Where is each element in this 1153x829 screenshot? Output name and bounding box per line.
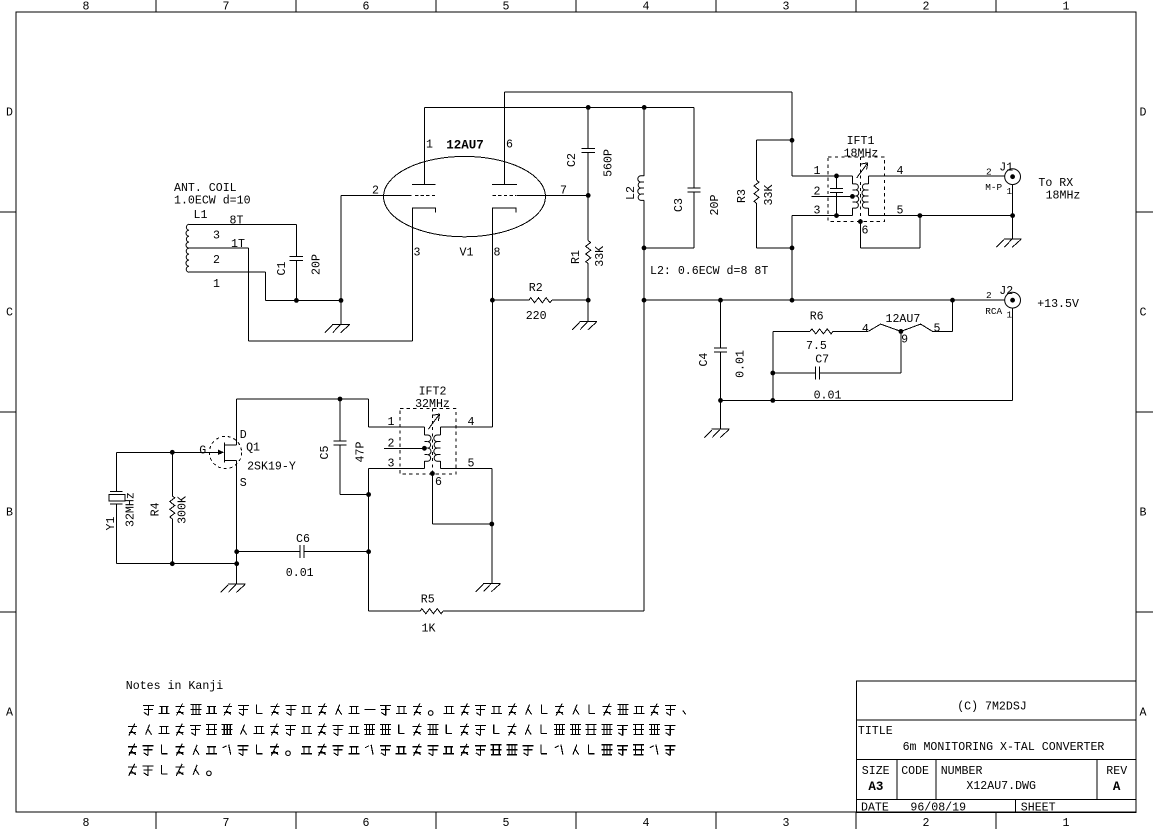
ground below IFT2 xyxy=(476,583,501,591)
label tube pin 1 xyxy=(426,139,433,152)
label 0.01 C7 xyxy=(814,390,842,403)
label M-P xyxy=(985,182,1002,193)
svg-text:C4: C4 xyxy=(698,353,711,367)
tube cathode 1 xyxy=(412,208,435,341)
wire IFT1 pin 1 feed xyxy=(792,140,852,176)
capacitor C3 xyxy=(687,107,700,248)
svg-text:32MHz: 32MHz xyxy=(125,492,138,527)
svg-text:R6: R6 xyxy=(810,311,824,324)
node pin5 pin6 junction xyxy=(918,213,923,218)
svg-text:2: 2 xyxy=(213,254,220,267)
label L1 pin 2 xyxy=(213,254,220,267)
svg-text:TITLE: TITLE xyxy=(858,725,893,738)
svg-text:C2: C2 xyxy=(566,153,579,167)
label 300K xyxy=(177,496,190,524)
IFT2 shield box xyxy=(400,409,456,475)
label IFT2 pin 6 xyxy=(435,476,442,489)
svg-text:DATE: DATE xyxy=(861,802,889,815)
svg-text:2: 2 xyxy=(814,185,821,198)
svg-text:5: 5 xyxy=(503,817,510,829)
label 220 xyxy=(526,310,547,323)
resistor R6 xyxy=(773,329,868,334)
node C7 left xyxy=(770,371,775,376)
svg-text:C6: C6 xyxy=(296,533,310,546)
wire L1 tap to cathode 1 xyxy=(189,248,412,341)
capacitor C5 xyxy=(333,399,368,495)
wire IFT1 pin 2 stub xyxy=(812,195,853,197)
svg-text:6: 6 xyxy=(435,476,442,489)
svg-text:6: 6 xyxy=(363,817,370,829)
resistor R2 xyxy=(492,298,588,303)
tube grid 1 xyxy=(341,194,437,196)
label 1T xyxy=(231,238,245,251)
svg-text:4: 4 xyxy=(862,323,869,336)
node R6 bottom xyxy=(770,398,775,403)
svg-text:L1: L1 xyxy=(194,209,208,222)
label IFT1 pin 5 xyxy=(897,205,904,218)
svg-text:7.5: 7.5 xyxy=(806,340,827,353)
label L1 pin 1 xyxy=(213,278,220,291)
svg-text:6: 6 xyxy=(363,1,370,14)
svg-text:3: 3 xyxy=(388,458,395,471)
svg-text:G: G xyxy=(199,444,206,457)
node heater center tap xyxy=(899,329,904,334)
node R1 bottom xyxy=(586,298,591,303)
svg-text:+13.5V: +13.5V xyxy=(1037,298,1079,311)
label J1 pin 2 xyxy=(986,167,992,178)
title block xyxy=(857,681,1136,815)
svg-text:Q1: Q1 xyxy=(246,441,260,454)
label J2 pin 2 xyxy=(986,290,992,301)
svg-text:2: 2 xyxy=(986,290,992,301)
node B+ L2 xyxy=(642,298,647,303)
svg-text:6m MONITORING X-TAL CONVERTER: 6m MONITORING X-TAL CONVERTER xyxy=(903,741,1105,754)
svg-text:2: 2 xyxy=(923,1,930,14)
svg-text:1: 1 xyxy=(1063,817,1070,829)
connector J1 xyxy=(1005,169,1021,185)
svg-text:R2: R2 xyxy=(529,282,543,295)
svg-text:3: 3 xyxy=(814,205,821,218)
svg-text:1K: 1K xyxy=(422,622,436,635)
node grid 2 xyxy=(586,193,591,198)
wire J1 shell down xyxy=(1012,185,1014,216)
svg-text:18MHz: 18MHz xyxy=(844,147,879,160)
svg-text:RCA: RCA xyxy=(985,306,1002,317)
svg-text:B: B xyxy=(1140,507,1147,520)
node L2 top xyxy=(642,105,647,110)
label heater pin 9 xyxy=(901,334,908,347)
label C7 xyxy=(815,354,829,367)
wire plate 1 rail xyxy=(425,106,695,108)
label 33K R3 xyxy=(763,185,776,206)
label C6 xyxy=(296,533,310,546)
svg-text:D: D xyxy=(6,107,13,120)
svg-text:9: 9 xyxy=(901,334,908,347)
label J1 xyxy=(999,161,1013,174)
svg-text:D: D xyxy=(1140,107,1147,120)
label J2 pin 1 xyxy=(1006,310,1012,321)
svg-text:20P: 20P xyxy=(310,254,323,275)
label tube pin 7 xyxy=(560,185,567,198)
wire IFT2 pin 1 xyxy=(369,426,425,428)
inductor L2 xyxy=(638,107,644,248)
label C5 xyxy=(319,446,332,460)
svg-text:5: 5 xyxy=(503,1,510,14)
wire IFT2 pin 5 ground xyxy=(440,469,491,584)
wire 13.5V rail xyxy=(644,299,1005,301)
wire IFT2 pin 3 xyxy=(369,469,425,612)
svg-text:(C) 7M2DSJ: (C) 7M2DSJ xyxy=(957,701,1027,714)
label 8T xyxy=(230,215,244,228)
svg-text:2SK19-Y: 2SK19-Y xyxy=(247,461,296,474)
capacitor C2 xyxy=(582,107,595,195)
label 7.5 xyxy=(806,340,827,353)
resistor R4 xyxy=(170,452,175,563)
wire plate 2 rail xyxy=(505,92,793,140)
svg-text:5: 5 xyxy=(934,322,941,335)
svg-text:R3: R3 xyxy=(736,189,749,203)
svg-text:6: 6 xyxy=(506,139,513,152)
svg-text:2: 2 xyxy=(923,817,930,829)
ground below J1 xyxy=(996,216,1021,248)
label R6 xyxy=(810,311,824,324)
tube V1 envelope xyxy=(384,156,546,236)
node R4 bottom xyxy=(170,561,175,566)
svg-text:3: 3 xyxy=(213,230,220,243)
capacitor inside IFT1 xyxy=(830,176,843,216)
label IFT2 pin 2 xyxy=(388,437,395,450)
node IFT1 cap bottom xyxy=(834,213,839,218)
label tube pin 2 xyxy=(372,185,379,198)
capacitor C4 xyxy=(714,300,727,400)
label C4 xyxy=(698,353,711,367)
svg-text:8T: 8T xyxy=(230,215,244,228)
svg-text:X12AU7.DWG: X12AU7.DWG xyxy=(966,780,1036,793)
svg-text:IFT1: IFT1 xyxy=(847,135,875,148)
resistor R3 xyxy=(754,140,792,248)
svg-text:1: 1 xyxy=(1006,310,1012,321)
node source C6 xyxy=(234,549,239,554)
wire IFT1 pin 3 feed xyxy=(792,216,852,301)
transistor Q1 2SK19 xyxy=(209,399,241,564)
inductor L1 antenna coil xyxy=(186,224,189,272)
node IFT2 pin5 junction xyxy=(489,522,494,527)
node IFT1 pin 2 tap xyxy=(850,194,855,199)
node gate junction xyxy=(170,450,175,455)
svg-text:3: 3 xyxy=(783,1,790,14)
label 2SK19-Y xyxy=(247,461,296,474)
svg-text:1: 1 xyxy=(1063,1,1070,14)
svg-text:NUMBER: NUMBER xyxy=(941,765,983,778)
tube cathode 2 xyxy=(492,208,516,427)
resistor R5 xyxy=(369,248,644,614)
label IFT1 pin 4 xyxy=(897,165,904,178)
node C1 bottom xyxy=(294,298,299,303)
label J2 xyxy=(999,285,1013,298)
label 0.01 C6 xyxy=(286,567,314,580)
label To RX xyxy=(1038,177,1080,203)
svg-text:V1: V1 xyxy=(460,247,474,260)
label R1 xyxy=(570,250,583,264)
svg-text:L2: 0.6ECW d=8 8T: L2: 0.6ECW d=8 8T xyxy=(650,265,768,278)
label C2 xyxy=(566,153,579,167)
node IFT1 pin 6 xyxy=(858,219,863,224)
svg-text:7: 7 xyxy=(223,817,230,829)
node C5 top xyxy=(338,397,343,402)
label RCA xyxy=(985,306,1002,317)
svg-text:1: 1 xyxy=(814,165,821,178)
svg-text:12AU7: 12AU7 xyxy=(886,313,921,326)
label C3 xyxy=(673,198,686,212)
IFT1 primary xyxy=(852,176,858,216)
label L2 winding note xyxy=(650,265,768,278)
svg-text:300K: 300K xyxy=(177,496,190,524)
label ANT. COIL xyxy=(174,182,251,208)
svg-text:A: A xyxy=(6,707,13,720)
svg-text:B: B xyxy=(6,507,13,520)
ground below R1 xyxy=(572,300,597,330)
svg-text:4: 4 xyxy=(643,817,650,829)
label 20P C1 xyxy=(310,254,323,275)
node C6 right xyxy=(366,549,371,554)
node R3 top xyxy=(790,138,795,143)
label tube pin 3 xyxy=(414,247,421,260)
tube grid 2 xyxy=(493,194,588,196)
svg-text:33K: 33K xyxy=(594,246,607,267)
label R4 xyxy=(149,502,162,516)
node IFT2 pin 2 tap xyxy=(422,446,427,451)
wire R6 left leg xyxy=(772,331,774,400)
svg-text:6: 6 xyxy=(862,225,869,238)
node B+ C4 xyxy=(718,298,723,303)
svg-text:C5: C5 xyxy=(319,446,332,460)
svg-text:S: S xyxy=(240,477,247,490)
svg-text:47P: 47P xyxy=(355,442,368,463)
wire heater tap to C7 xyxy=(900,331,902,373)
svg-text:2: 2 xyxy=(372,185,379,198)
label D xyxy=(240,429,247,442)
wire tank bottom xyxy=(644,247,694,249)
label Notes in Kanji xyxy=(126,680,223,693)
svg-text:2: 2 xyxy=(388,437,395,450)
node grid 1 rail xyxy=(339,298,344,303)
label IFT1 pin 3 xyxy=(814,205,821,218)
node B+ IFT1 xyxy=(790,298,795,303)
svg-text:A: A xyxy=(1140,707,1147,720)
tube plate 1 xyxy=(412,107,435,184)
svg-text:220: 220 xyxy=(526,310,547,323)
svg-text:1: 1 xyxy=(388,416,395,429)
label IFT1 pin 2 xyxy=(814,185,821,198)
wire L1 bottom to ground rail xyxy=(189,272,341,300)
label 47P xyxy=(355,442,368,463)
svg-text:12AU7: 12AU7 xyxy=(446,139,484,153)
IFT2 core xyxy=(431,409,433,474)
label 20P C3 xyxy=(709,195,722,216)
svg-text:7: 7 xyxy=(223,1,230,14)
svg-text:1T: 1T xyxy=(231,238,245,251)
svg-text:A3: A3 xyxy=(868,780,883,794)
ground below C4 xyxy=(704,400,729,437)
svg-text:R1: R1 xyxy=(570,250,583,264)
label R5 xyxy=(421,593,435,606)
svg-text:1: 1 xyxy=(1006,186,1012,197)
wire gate line xyxy=(116,451,218,453)
svg-text:8: 8 xyxy=(83,817,90,829)
IFT1 core xyxy=(859,157,861,222)
svg-text:3: 3 xyxy=(414,247,421,260)
label IFT2 pin 3 xyxy=(388,458,395,471)
label L1 pin 3 xyxy=(213,230,220,243)
svg-text:96/08/19: 96/08/19 xyxy=(910,802,966,815)
label L1 xyxy=(194,209,208,222)
svg-text:2: 2 xyxy=(986,167,992,178)
label Q1 xyxy=(246,441,260,454)
IFT1 shield box xyxy=(828,157,884,222)
label +13.5V xyxy=(1037,298,1079,311)
label C1 xyxy=(276,262,289,276)
node cathode 2 junction xyxy=(490,298,495,303)
label heater pin 4 xyxy=(862,323,869,336)
svg-text:18MHz: 18MHz xyxy=(1046,189,1081,202)
node J1 ground xyxy=(1010,213,1015,218)
ground below Q1 source xyxy=(221,564,246,593)
crystal Y1 xyxy=(109,452,125,563)
label R3 xyxy=(736,189,749,203)
svg-text:8: 8 xyxy=(494,247,501,260)
label 33K R1 xyxy=(594,246,607,267)
label V1 xyxy=(460,247,474,260)
label Y1 xyxy=(105,517,118,531)
label 18MHz IFT1 xyxy=(844,147,879,160)
label tube pin 8 xyxy=(494,247,501,260)
svg-text:1.0ECW d=10: 1.0ECW d=10 xyxy=(174,195,251,208)
svg-text:7: 7 xyxy=(560,185,567,198)
svg-text:Y1: Y1 xyxy=(105,517,118,531)
svg-text:0.01: 0.01 xyxy=(735,350,748,378)
node C4 bottom xyxy=(718,398,723,403)
ground below C1 xyxy=(325,300,350,332)
node R3 bottom xyxy=(790,246,795,251)
label G xyxy=(199,444,206,457)
svg-text:To RX: To RX xyxy=(1038,177,1073,190)
svg-text:3: 3 xyxy=(783,817,790,829)
connector J2 xyxy=(1005,292,1021,308)
svg-text:0.01: 0.01 xyxy=(814,390,842,403)
svg-text:M-P: M-P xyxy=(985,182,1002,193)
wire IFT2 pin 6 to pin 5 xyxy=(432,474,491,525)
label heater pin 5 xyxy=(934,322,941,335)
capacitor C7 xyxy=(773,367,901,380)
IFT2 tuning arrow xyxy=(428,414,439,429)
IFT1 tuning arrow xyxy=(857,163,868,178)
label IFT2 xyxy=(419,385,447,398)
svg-text:L2: L2 xyxy=(625,186,638,200)
label L2 xyxy=(625,186,638,200)
label R2 xyxy=(529,282,543,295)
tube heater filament 12AU7 xyxy=(868,300,952,331)
svg-text:C3: C3 xyxy=(673,198,686,212)
label 560P xyxy=(603,149,616,177)
wire IFT2 pin 2 stub xyxy=(384,447,425,449)
svg-text:A: A xyxy=(1113,780,1121,794)
wire IFT1 pin 4 to J1 xyxy=(868,175,1004,177)
svg-text:0.01: 0.01 xyxy=(286,567,314,580)
IFT2 primary xyxy=(424,427,431,469)
wire IFT1 pin 6 to pin 5 xyxy=(860,216,920,248)
wire grid 1 riser xyxy=(340,195,342,300)
svg-text:D: D xyxy=(240,429,247,442)
wire IFT1 pin 5 to J1 ground xyxy=(868,215,1012,217)
svg-text:560P: 560P xyxy=(603,149,616,177)
svg-text:8: 8 xyxy=(83,1,90,14)
svg-text:C: C xyxy=(6,307,13,320)
svg-text:20P: 20P xyxy=(709,195,722,216)
label J1 pin 1 xyxy=(1006,186,1012,197)
label 12AU7 heater xyxy=(886,313,921,326)
svg-text:R5: R5 xyxy=(421,593,435,606)
label 32MHz IFT2 xyxy=(415,398,450,411)
svg-text:R4: R4 xyxy=(149,502,162,516)
node C2 top xyxy=(586,105,591,110)
wire L1 top to C1 top xyxy=(189,223,296,225)
wire J2 shell return xyxy=(721,308,1013,400)
label 12AU7 tube xyxy=(446,139,484,153)
svg-text:REV: REV xyxy=(1106,765,1127,778)
svg-text:Notes in Kanji: Notes in Kanji xyxy=(126,680,223,693)
svg-text:33K: 33K xyxy=(763,185,776,206)
label IFT1 xyxy=(847,135,875,148)
svg-text:1: 1 xyxy=(426,139,433,152)
label 1K xyxy=(422,622,436,635)
wire drain rail to IFT2 pin 1 xyxy=(368,399,370,427)
svg-text:4: 4 xyxy=(643,1,650,14)
IFT1 secondary xyxy=(862,176,868,216)
IFT2 secondary xyxy=(434,427,441,469)
label tube pin 6 xyxy=(506,139,513,152)
node source bottom xyxy=(234,561,239,566)
label IFT2 pin 5 xyxy=(468,458,475,471)
wire IFT2 pin 4 up xyxy=(440,426,492,428)
capacitor C6 xyxy=(237,545,369,558)
label IFT1 pin 6 xyxy=(862,225,869,238)
wire drain rail xyxy=(237,398,369,400)
label IFT2 pin 1 xyxy=(388,416,395,429)
svg-text:SHEET: SHEET xyxy=(1021,802,1056,815)
label IFT1 pin 1 xyxy=(814,165,821,178)
label S xyxy=(240,477,247,490)
capacitor C1 xyxy=(290,224,303,300)
svg-text:1: 1 xyxy=(213,278,220,291)
svg-text:CODE: CODE xyxy=(901,765,929,778)
node C5 bottom xyxy=(366,492,371,497)
label 0.01 C4 xyxy=(735,350,748,378)
japanese note text (stylized) xyxy=(128,704,686,776)
resistor R1 xyxy=(586,195,591,300)
svg-text:ANT. COIL: ANT. COIL xyxy=(174,182,237,195)
node IFT2 pin 6 xyxy=(430,471,435,476)
svg-text:IFT2: IFT2 xyxy=(419,385,447,398)
node IFT1 cap top xyxy=(834,174,839,179)
label IFT2 pin 4 xyxy=(468,416,475,429)
label 32MHz Y1 xyxy=(125,492,138,527)
tube plate 2 xyxy=(492,92,517,184)
svg-text:SIZE: SIZE xyxy=(862,765,890,778)
svg-text:C7: C7 xyxy=(815,354,829,367)
svg-text:J1: J1 xyxy=(999,161,1013,174)
node tank bottom xyxy=(642,246,647,251)
svg-text:C1: C1 xyxy=(276,262,289,276)
